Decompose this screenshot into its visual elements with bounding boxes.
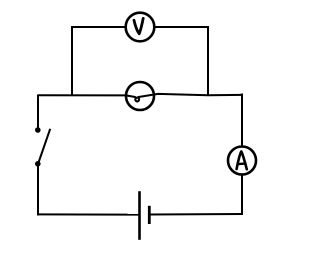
lamp L1 filament loop [135, 98, 139, 102]
wire: bottom left of battery [37, 213, 139, 215]
wire: lamp row right segment [138, 94, 242, 97]
voltmeter V1 letter V [134, 18, 143, 33]
ammeter A1 circle [228, 147, 256, 175]
battery B1 short plate (negative) [148, 206, 151, 224]
wire: left vertical above switch [37, 95, 39, 129]
wire: right vertical above ammeter [241, 94, 243, 147]
wire: lamp row left segment [38, 95, 136, 97]
wire top-right: voltmeter branch horizontal, right of V [155, 26, 209, 28]
switch S1 top contact dot [35, 127, 41, 133]
wire: bottom right of battery [150, 213, 243, 216]
wire: right vertical below ammeter [241, 174, 243, 215]
wire: voltmeter branch left vertical [71, 26, 73, 96]
switch S1 blade (open) [38, 129, 50, 164]
lamp L1 circle [126, 82, 154, 110]
wire: voltmeter branch right vertical [207, 26, 209, 95]
ammeter A1 letter A crossbar [238, 162, 246, 165]
battery B1 long plate (positive) [138, 191, 141, 240]
wire: left vertical below switch [37, 164, 39, 216]
wire top-left: voltmeter branch horizontal, left of V [72, 26, 126, 28]
ammeter A1 letter A [237, 152, 247, 170]
switch S1 bottom contact dot [35, 161, 41, 167]
voltmeter V1 circle [126, 13, 155, 42]
